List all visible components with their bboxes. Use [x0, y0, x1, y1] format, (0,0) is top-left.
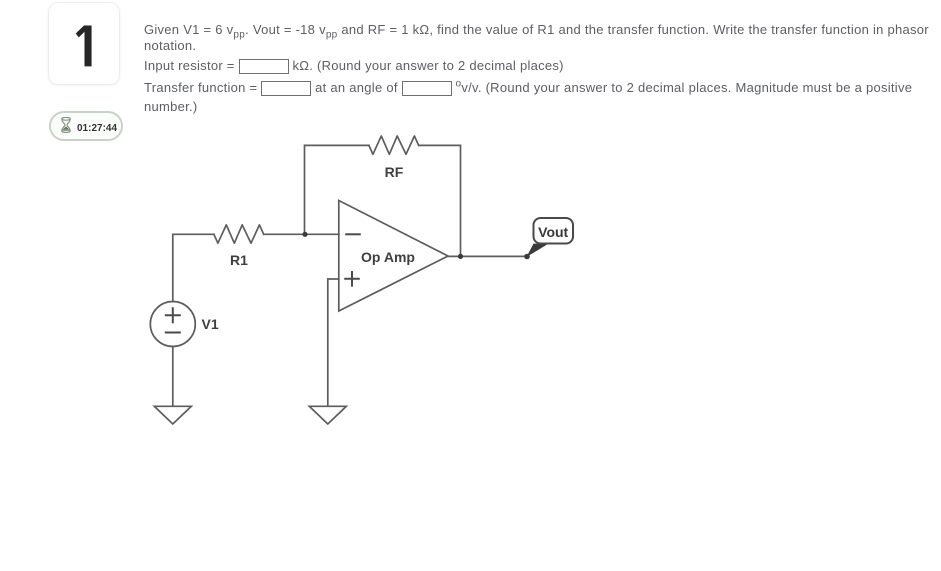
wire: V1 top to R1	[173, 234, 214, 301]
transfer function line 2	[144, 99, 197, 115]
Vout tag	[534, 218, 574, 244]
transfer function line	[144, 80, 912, 96]
wire: op-amp output	[448, 255, 527, 257]
ground (op-amp input)	[309, 406, 346, 424]
svg-text:Vout: Vout	[538, 224, 568, 240]
label V1	[202, 316, 219, 332]
wire: non-inverting input to ground	[328, 279, 339, 406]
resistor R1	[214, 225, 264, 243]
label RF	[385, 164, 404, 180]
op-amp non-inverting input marker	[345, 272, 359, 286]
wire: feedback right down to output node	[419, 145, 461, 256]
svg-text:RF: RF	[385, 164, 404, 180]
input resistor line	[144, 58, 564, 74]
timer badge	[49, 111, 123, 141]
question number card	[48, 2, 120, 85]
wire: R1 to inverting input	[264, 233, 339, 235]
svg-text:V1: V1	[202, 316, 219, 332]
source V1	[150, 302, 195, 347]
resistor RF	[369, 136, 419, 154]
node A: inverting input junction	[302, 232, 307, 237]
svg-text:R1: R1	[230, 252, 248, 268]
Vout tag pointer	[527, 244, 549, 257]
problem statement line 2	[144, 38, 196, 54]
probe dot (Vout)	[524, 254, 530, 260]
node: output junction	[458, 254, 463, 259]
ground (V1)	[154, 406, 191, 424]
problem statement line 1	[144, 22, 929, 38]
svg-text:Op Amp: Op Amp	[361, 249, 415, 265]
label R1	[230, 252, 248, 268]
op-amp inverting input marker	[346, 233, 360, 235]
wire: V1 bottom to ground	[172, 347, 174, 407]
label Op Amp	[361, 249, 415, 265]
op-amp U1	[339, 201, 448, 312]
wire: feedback left (node A up and across to RF)	[305, 145, 369, 234]
